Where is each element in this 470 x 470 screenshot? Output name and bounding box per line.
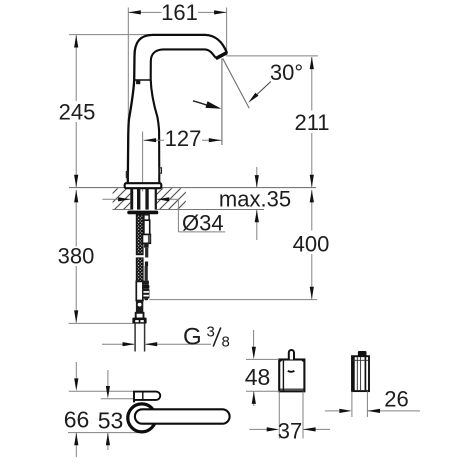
control box front view: [279, 360, 304, 392]
countertop hatching left: [113, 188, 131, 209]
svg-text:30°: 30°: [270, 60, 303, 85]
svg-text:127: 127: [165, 126, 202, 151]
hose end tube: [136, 281, 143, 300]
mounting nut under counter: [127, 211, 158, 215]
ext line: 245 top reference (spout top): [69, 34, 152, 36]
dim 37 ext lines: [278, 392, 280, 439]
ext line: spout outlet vertical axis: [221, 59, 223, 146]
braided hose upper segment: [136, 215, 143, 255]
rod end striped ferrule: [143, 289, 150, 299]
ext line: 161 right extension: [226, 8, 228, 53]
svg-text:380: 380: [58, 244, 95, 269]
svg-text:3: 3: [207, 324, 215, 341]
svg-text:211: 211: [294, 110, 329, 135]
svg-text:161: 161: [161, 0, 198, 25]
dim 127: [144, 139, 164, 141]
dim 53: [107, 370, 109, 386]
ext line: 400 bottom reference (hose end): [149, 299, 317, 301]
svg-text:66: 66: [64, 407, 90, 433]
faucet spout inner contour: [151, 49, 216, 183]
side box stub: [358, 351, 367, 356]
rod clamp block: [143, 235, 151, 244]
top view: faucet body circle: [128, 404, 156, 432]
top view: sensor housing: [134, 392, 160, 403]
braided hose lower segment: [136, 258, 143, 281]
top view: lever: [135, 409, 230, 423]
ext line: 161 left extension: [127, 8, 129, 122]
top view: ext line bottom (shared): [68, 432, 146, 434]
control box side view: [352, 356, 369, 391]
aerator face at spout tip: [216, 53, 227, 59]
right body clip detail: [159, 168, 161, 173]
svg-text:37: 37: [278, 418, 302, 443]
fitting collar: [136, 313, 144, 319]
dim 37: [249, 428, 267, 430]
svg-text:400: 400: [293, 232, 330, 257]
faucet spout outline: [128, 35, 227, 183]
svg-text:245: 245: [59, 100, 96, 125]
dim 380: [75, 190, 77, 247]
dim 400: [311, 190, 313, 231]
svg-text:max.35: max.35: [219, 186, 291, 211]
hose end fitting with weep hole: [136, 301, 143, 313]
sensor window on body: [136, 81, 140, 85]
top view: ext line 66 top: [69, 390, 134, 392]
ext line: 380 bottom reference: [69, 322, 134, 324]
svg-text:26: 26: [384, 386, 408, 411]
connection tube G3/8: [134, 324, 136, 352]
spout/body seam line: [134, 79, 151, 81]
ext line: faucet body centerline: [142, 132, 144, 192]
dim 161: [128, 11, 161, 13]
dim max.35: [256, 167, 258, 188]
dim &#216;34 leader: [102, 198, 130, 200]
svg-text:G: G: [183, 324, 202, 351]
box led dash: [288, 371, 295, 372]
svg-text:Ø34: Ø34: [182, 210, 224, 235]
dim 66: [75, 362, 77, 379]
ext line: 211 top reference (spout outlet): [226, 55, 318, 57]
rod end block: [143, 281, 149, 285]
dim 26: [325, 410, 339, 412]
dim 211: [311, 57, 313, 111]
dim G 3/8: [102, 343, 135, 345]
30 deg leader arrow: [252, 82, 271, 100]
dim 48 ext lines: [246, 358, 279, 360]
left body clip detail: [126, 172, 128, 178]
rod dark tip: [144, 243, 149, 247]
countertop bottom line right / max.35 reference: [157, 209, 264, 211]
rod lower segment: [145, 262, 148, 267]
svg-text:48: 48: [245, 364, 271, 390]
swivel arc arrow: [193, 101, 208, 106]
dim 30 degrees: spray direction line: [223, 58, 250, 108]
countertop hatching right: [157, 188, 186, 209]
countertop top line: [69, 187, 316, 189]
threaded shank: [130, 188, 133, 209]
top view: ext line 53 top: [101, 398, 134, 400]
countertop bottom line left: [112, 209, 130, 211]
threaded rod segment: [145, 248, 148, 258]
base flange: [125, 183, 162, 188]
mounting rod upper: [144, 215, 149, 220]
dim 48: [253, 330, 255, 347]
box nipple: [289, 350, 294, 360]
svg-text:53: 53: [98, 408, 124, 434]
dim 245: [75, 35, 77, 101]
svg-text:8: 8: [222, 334, 230, 351]
dim 26 ext lines: [351, 391, 353, 417]
hex nut G3/8: [132, 318, 146, 324]
